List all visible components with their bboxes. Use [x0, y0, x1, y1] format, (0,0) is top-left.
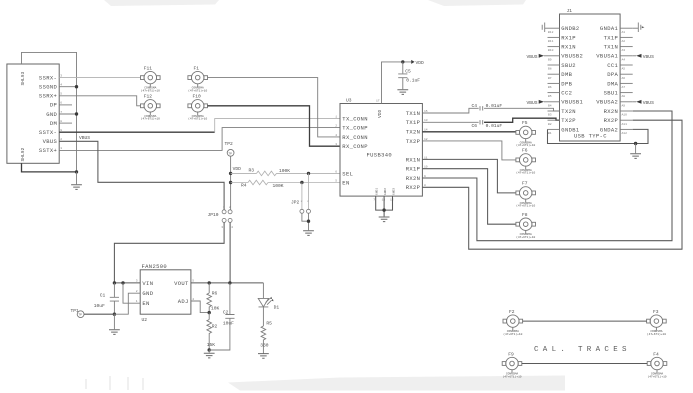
svg-text:C2: C2: [223, 310, 229, 316]
junction R4 node: [229, 181, 232, 184]
shield wire SHL92 to ground: [22, 163, 77, 172]
svg-text:DMB: DMB: [561, 71, 572, 78]
regulator U2 FAN2500: [136, 263, 195, 323]
svg-text:TX1P: TX1P: [604, 34, 619, 41]
diode D1 LED: [258, 283, 279, 326]
pin stub DM (n.c.): [59, 122, 72, 124]
svg-text:(47+6T1)+10: (47+6T1)+10: [647, 374, 666, 378]
capacitor C2 10uF: [209, 283, 234, 350]
svg-text:DP: DP: [50, 102, 57, 109]
SMA connector F5: [516, 126, 536, 141]
svg-text:VBUS: VBUS: [643, 54, 654, 60]
svg-text:B4: B4: [548, 104, 552, 107]
power flag VBUS at A9: [633, 101, 637, 103]
svg-text:100K: 100K: [273, 183, 284, 189]
svg-text:15: 15: [424, 110, 428, 113]
svg-text:5: 5: [192, 280, 194, 283]
svg-text:F11: F11: [144, 65, 153, 71]
wire C1 to ground: [113, 314, 115, 329]
ground (R5): [258, 353, 269, 358]
svg-text:B6: B6: [548, 86, 552, 89]
capacitor C1 10uF: [94, 283, 119, 314]
wire TX1N to C4: [422, 108, 478, 113]
SMA connector F9: [502, 357, 522, 372]
wire GNDB1 ground loop: [548, 129, 636, 143]
svg-text:VBUSA1: VBUSA1: [596, 53, 618, 60]
svg-text:TX1P: TX1P: [406, 119, 421, 126]
svg-text:VDD: VDD: [416, 60, 425, 66]
svg-text:B8: B8: [548, 68, 552, 71]
svg-text:CC1: CC1: [607, 62, 618, 69]
wire TP2 down to VDD node: [230, 156, 232, 210]
SMA connector F1: [188, 71, 208, 86]
op-amp U3 FUSB340: [340, 98, 422, 197]
svg-text:2: 2: [60, 138, 62, 141]
wire ADJ: [191, 301, 209, 313]
svg-text:TP: TP: [228, 152, 232, 155]
svg-text:F2: F2: [509, 309, 515, 315]
resistor R3 100K: [231, 168, 340, 176]
svg-text:1: 1: [60, 147, 62, 150]
svg-text:A3: A3: [622, 49, 626, 52]
junction J1 ground: [634, 142, 637, 145]
svg-text:RX2P: RX2P: [604, 117, 619, 124]
svg-text:9: 9: [424, 175, 426, 178]
junction R3 node: [229, 172, 232, 175]
svg-text:2: 2: [229, 206, 231, 209]
capacitor C6 0.01uF: [472, 120, 503, 129]
wire RX2N loop to J1 A10: [422, 111, 672, 241]
svg-text:U2: U2: [142, 317, 148, 323]
svg-text:F10: F10: [193, 94, 202, 100]
wire RX2P loop to J1 A11: [422, 120, 682, 249]
svg-text:ADJ: ADJ: [178, 298, 189, 305]
svg-text:R6: R6: [212, 291, 218, 297]
svg-text:R2: R2: [212, 323, 218, 329]
svg-text:RX1P: RX1P: [561, 34, 576, 41]
wire F1 to U3 RX_CONN: [208, 78, 341, 137]
svg-text:3: 3: [136, 280, 138, 283]
svg-text:2: 2: [335, 125, 337, 128]
ground (C1): [109, 329, 120, 334]
wire TX2P to F6: [422, 141, 516, 160]
svg-text:RX1N: RX1N: [561, 44, 576, 51]
wire TP1 to VIN node: [84, 313, 114, 315]
wire GNDA2 to ground: [633, 129, 648, 143]
svg-text:SSRX+: SSRX+: [39, 93, 57, 100]
svg-text:13: 13: [424, 119, 428, 122]
capacitor C5 0.1uF: [398, 62, 420, 89]
svg-text:RX1P: RX1P: [406, 166, 421, 173]
svg-text:(47+6T1)+10: (47+6T1)+10: [516, 235, 535, 239]
svg-text:A9: A9: [622, 104, 626, 107]
svg-text:SEL: SEL: [342, 170, 353, 177]
svg-text:GND: GND: [46, 111, 57, 118]
svg-text:TX_CONN: TX_CONN: [342, 116, 368, 123]
ground (J1): [630, 153, 641, 158]
svg-text:(47+6T1)+10: (47+6T1)+10: [502, 374, 521, 378]
svg-text:(47+6T1)+10: (47+6T1)+10: [503, 332, 522, 336]
junction C1/TP1: [113, 313, 116, 316]
svg-text:A2: A2: [622, 40, 626, 43]
svg-text:(47+6T1)+10: (47+6T1)+10: [188, 88, 207, 92]
svg-text:VDD: VDD: [233, 166, 242, 172]
wire VIN rail: [114, 282, 140, 284]
svg-text:14: 14: [424, 129, 428, 132]
svg-text:TX1N: TX1N: [604, 44, 619, 51]
svg-text:4: 4: [192, 298, 194, 301]
svg-text:(47+6T1)+10: (47+6T1)+10: [141, 117, 160, 121]
svg-text:F7: F7: [522, 181, 528, 187]
svg-text:F6: F6: [522, 148, 528, 154]
svg-text:F4: F4: [653, 351, 659, 357]
svg-text:B7: B7: [548, 77, 552, 80]
svg-text:VIN: VIN: [142, 280, 153, 287]
svg-text:TX2N: TX2N: [561, 108, 576, 115]
ground (C5): [397, 89, 408, 94]
svg-text:C6: C6: [472, 123, 478, 129]
ground (JP2): [303, 230, 314, 235]
svg-text:F12: F12: [144, 94, 153, 100]
svg-text:GNDB2: GNDB2: [561, 25, 579, 32]
svg-text:DPA: DPA: [607, 71, 618, 78]
svg-text:SSTX+: SSTX+: [39, 147, 57, 154]
svg-text:C5: C5: [405, 68, 411, 74]
svg-text:100K: 100K: [279, 168, 290, 174]
pin stub DP (n.c.): [59, 104, 72, 106]
svg-text:VBUS: VBUS: [643, 100, 654, 106]
svg-text:6: 6: [60, 102, 62, 105]
SMA connector F7: [516, 187, 536, 202]
power flag VBUS at A4: [633, 55, 637, 57]
svg-text:TX1N: TX1N: [406, 110, 421, 117]
svg-text:A6: A6: [622, 77, 626, 80]
svg-text:GNDA2: GNDA2: [600, 126, 618, 133]
svg-text:A4: A4: [622, 58, 626, 61]
U3 pins 7,16,12 GND1 GND2 GND3: [373, 188, 395, 202]
junction R3/JP2: [307, 172, 310, 175]
svg-text:JP10: JP10: [208, 212, 219, 218]
svg-text:F3: F3: [653, 309, 659, 315]
svg-text:1: 1: [335, 116, 337, 119]
SMA connector F2: [503, 315, 523, 330]
svg-text:CAL. TRACES: CAL. TRACES: [534, 346, 631, 354]
svg-text:TP2: TP2: [225, 141, 234, 147]
svg-text:10: 10: [424, 166, 428, 169]
svg-text:EN: EN: [142, 300, 149, 307]
svg-text:R3: R3: [249, 168, 255, 174]
svg-text:RX2N: RX2N: [406, 175, 421, 182]
wire U3 VDD to rail: [382, 62, 412, 104]
SMA connector F12: [141, 100, 161, 115]
svg-text:(47+6T1)+10: (47+6T1)+10: [141, 88, 160, 92]
svg-text:5: 5: [335, 179, 337, 182]
svg-text:F1: F1: [194, 65, 200, 71]
svg-text:VBUS: VBUS: [43, 138, 58, 145]
jumper JP2: [291, 173, 311, 213]
svg-text:0.01uF: 0.01uF: [486, 123, 503, 129]
wire RX1N to F7: [422, 159, 516, 193]
svg-text:D1: D1: [274, 304, 280, 310]
wire JP10 pin4 to regulator VOUT: [229, 222, 231, 283]
junction R4/JP2: [300, 181, 303, 184]
svg-text:GND3: GND3: [392, 188, 395, 195]
svg-text:12: 12: [424, 138, 428, 141]
svg-text:TX_CONP: TX_CONP: [342, 125, 368, 132]
svg-text:A7: A7: [622, 86, 626, 89]
SMA connector F10: [188, 100, 208, 115]
jumper JP10: [208, 206, 234, 229]
junction R2/C2 return: [208, 348, 211, 351]
svg-text:8: 8: [424, 184, 426, 187]
svg-text:3: 3: [60, 74, 62, 77]
ground (U3): [379, 216, 390, 221]
svg-text:B10: B10: [548, 49, 554, 52]
svg-text:15K: 15K: [207, 342, 216, 348]
svg-text:C1: C1: [100, 293, 106, 299]
wire TX2N to F5: [422, 131, 516, 133]
ground (left connector shield): [71, 184, 82, 189]
resistor R5 330: [260, 320, 272, 353]
wire C6 to J1 TX2P(B2): [484, 118, 559, 122]
svg-text:(47+6T1)+10: (47+6T1)+10: [647, 332, 666, 336]
svg-text:GND2: GND2: [384, 188, 387, 195]
connector J2 USB3 plug (left): [7, 64, 62, 163]
SMA connector F3: [647, 315, 667, 330]
svg-text:TP: TP: [78, 314, 82, 317]
power flag VDD: [411, 60, 414, 64]
svg-text:8: 8: [60, 120, 62, 123]
svg-text:USB TYP-C: USB TYP-C: [574, 132, 607, 139]
junction shield/ground: [75, 170, 78, 173]
svg-text:B1: B1: [548, 132, 552, 135]
svg-text:RX_CONP: RX_CONP: [342, 143, 368, 150]
SMA connector F6: [516, 154, 536, 169]
svg-text:B2: B2: [548, 123, 552, 126]
svg-text:U3: U3: [346, 98, 352, 104]
wire SSTX+ to U3 TX_CONP: [59, 128, 340, 151]
svg-text:VBUS: VBUS: [526, 100, 537, 106]
svg-text:A12: A12: [622, 132, 628, 135]
wire JP2 to ground: [302, 213, 309, 221]
svg-text:VBUS: VBUS: [79, 135, 90, 141]
svg-text:FAN2500: FAN2500: [142, 263, 168, 270]
svg-text:RX1N: RX1N: [406, 156, 421, 163]
svg-text:SHL93: SHL93: [20, 71, 26, 85]
test point TP2: [225, 141, 235, 156]
svg-text:VBUS: VBUS: [526, 54, 537, 60]
wire U3 ground pins: [376, 196, 393, 210]
resistor R2 15K: [207, 313, 218, 350]
svg-text:0.1uF: 0.1uF: [406, 77, 420, 83]
svg-text:7: 7: [373, 199, 375, 202]
svg-text:B12: B12: [548, 31, 554, 34]
svg-text:J1: J1: [567, 8, 573, 14]
svg-text:11: 11: [424, 156, 428, 159]
junction ADJ/R6/R2: [208, 311, 211, 314]
svg-text:12: 12: [390, 199, 394, 202]
svg-text:TX2N: TX2N: [406, 129, 421, 136]
svg-text:(47+6T1)+10: (47+6T1)+10: [516, 171, 535, 175]
svg-text:CC2: CC2: [561, 90, 572, 97]
svg-text:5: 5: [60, 93, 62, 96]
wire RX1P to F8: [422, 169, 516, 225]
svg-text:3: 3: [335, 143, 337, 146]
svg-text:EN: EN: [342, 179, 349, 186]
svg-text:F5: F5: [522, 120, 528, 126]
shield wire SHL93 to ground: [22, 52, 77, 171]
wire JP10 pin3 to regulator VIN: [114, 222, 224, 283]
wire SSRX- to F11: [59, 77, 140, 79]
wire SSRX+ to F12: [59, 96, 140, 106]
svg-text:SSGND: SSGND: [39, 84, 58, 91]
wire R2 to ground: [208, 350, 210, 353]
wire GND pin to gnd rail: [59, 113, 76, 115]
decorative: [86, 376, 143, 390]
svg-text:RX2P: RX2P: [406, 184, 421, 191]
svg-text:R5: R5: [266, 320, 272, 326]
wire VIN to EN: [123, 283, 140, 303]
svg-text:1: 1: [223, 206, 225, 209]
svg-text:VBUSB2: VBUSB2: [561, 53, 583, 60]
svg-text:SHL92: SHL92: [20, 147, 26, 161]
svg-text:(47+6T1)+10: (47+6T1)+10: [188, 117, 207, 121]
svg-text:DPB: DPB: [561, 80, 572, 87]
svg-text:2: 2: [136, 290, 138, 293]
power flag VBUS at B9: [544, 55, 548, 57]
svg-text:B5: B5: [548, 95, 552, 98]
wire SSTX- to U3 TX_CONN: [59, 131, 215, 133]
svg-text:F9: F9: [508, 351, 514, 357]
svg-text:FUSB340: FUSB340: [367, 151, 393, 158]
wire cal trace bottom: [522, 363, 647, 365]
wire ground stub: [76, 172, 78, 184]
svg-text:R4: R4: [241, 183, 247, 189]
svg-text:10uF: 10uF: [223, 320, 234, 326]
wire C4 to J1 TX2N(B3): [484, 108, 559, 111]
svg-text:F8: F8: [522, 212, 528, 218]
svg-text:6: 6: [335, 170, 337, 173]
svg-text:VOUT: VOUT: [174, 280, 189, 287]
svg-text:SSTX-: SSTX-: [39, 129, 57, 136]
svg-text:RX2N: RX2N: [604, 108, 619, 115]
svg-text:10K: 10K: [211, 305, 220, 311]
shield symbol at A1: [633, 27, 639, 29]
shield symbol at B12: [545, 27, 548, 29]
svg-text:GNDA1: GNDA1: [600, 25, 619, 32]
svg-text:330: 330: [260, 342, 269, 348]
svg-text:DM: DM: [50, 120, 57, 127]
SMA connector F4: [647, 357, 667, 372]
svg-text:A5: A5: [622, 68, 626, 71]
svg-text:SSRX-: SSRX-: [39, 74, 57, 81]
wire TX1P to C6: [422, 121, 478, 123]
svg-text:(47+6T1)+10: (47+6T1)+10: [516, 204, 535, 208]
svg-text:GNDB1: GNDB1: [561, 126, 580, 133]
svg-text:GND: GND: [142, 290, 153, 297]
svg-text:A8: A8: [622, 95, 626, 98]
svg-text:RX_CONN: RX_CONN: [342, 134, 368, 141]
test point TP1: [71, 308, 85, 318]
svg-text:10uF: 10uF: [94, 303, 105, 309]
svg-text:VBUSA2: VBUSA2: [596, 99, 618, 106]
wire SSGND pin to gnd rail: [59, 86, 76, 88]
svg-text:A10: A10: [622, 114, 628, 117]
svg-text:TX2P: TX2P: [406, 138, 421, 145]
wire TP1 node to GND pin: [114, 293, 140, 314]
resistor R6 10K: [207, 283, 220, 313]
svg-text:4: 4: [231, 226, 233, 229]
svg-text:A11: A11: [622, 123, 628, 126]
svg-text:4: 4: [335, 134, 337, 137]
wire VOUT rail: [191, 282, 264, 284]
svg-text:SBU1: SBU1: [604, 90, 619, 97]
svg-text:TX2P: TX2P: [561, 117, 576, 124]
svg-text:17: 17: [376, 100, 380, 103]
svg-text:A1: A1: [622, 31, 626, 34]
svg-text:B3: B3: [548, 114, 552, 117]
power flag VBUS at B4: [544, 101, 548, 103]
ground (R2/C2): [204, 353, 215, 358]
svg-text:3: 3: [221, 226, 223, 229]
svg-text:GND1: GND1: [376, 188, 379, 195]
resistor R4 100K: [231, 180, 340, 189]
SMA connector F8: [516, 218, 536, 233]
svg-text:B9: B9: [548, 58, 552, 61]
svg-text:C4: C4: [472, 103, 478, 109]
svg-text:(47+6T1)+10: (47+6T1)+10: [516, 143, 535, 147]
wire VBUS to JP10: [59, 141, 224, 210]
junction C5: [401, 60, 404, 63]
svg-text:DMA: DMA: [607, 80, 618, 87]
capacitor C4 0.01uF: [472, 103, 503, 110]
svg-text:16: 16: [382, 199, 386, 202]
svg-text:4: 4: [60, 84, 62, 87]
svg-text:7: 7: [60, 111, 62, 114]
svg-text:1: 1: [136, 300, 138, 303]
SMA connector F11: [141, 71, 161, 86]
wire cal trace top: [523, 320, 647, 322]
svg-text:VBUSB1: VBUSB1: [561, 99, 583, 106]
svg-text:B11: B11: [548, 40, 554, 43]
svg-text:SBU2: SBU2: [561, 62, 576, 69]
svg-text:JP2: JP2: [291, 200, 300, 206]
svg-text:VDD: VDD: [377, 109, 383, 118]
wire F10 to U3 RX_CONP: [208, 106, 341, 146]
connector J1 USB TYP-C: [560, 8, 621, 141]
